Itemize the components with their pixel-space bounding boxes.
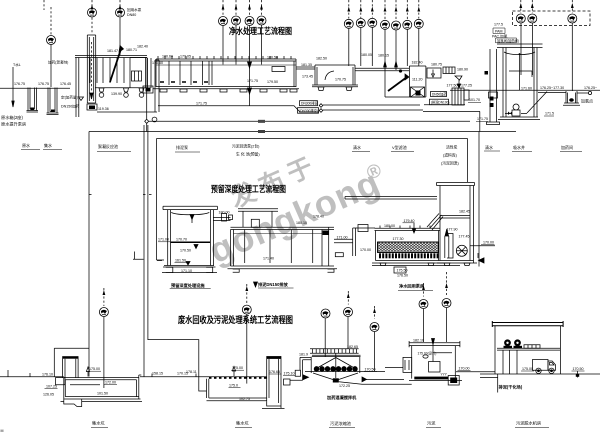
svg-text:DN80: DN80	[127, 13, 136, 17]
svg-text:净水处理工艺流程图: 净水处理工艺流程图	[229, 26, 292, 36]
svg-text:加药间: 加药间	[561, 144, 573, 150]
svg-text:176.60: 176.60	[152, 61, 163, 65]
svg-text:PAM: PAM	[495, 30, 503, 34]
svg-text:101.70: 101.70	[469, 98, 480, 102]
svg-text:176.50: 176.50	[397, 274, 408, 278]
svg-text:预留深度处理设施: 预留深度处理设施	[171, 282, 205, 289]
svg-text:M: M	[1, 429, 4, 433]
svg-text:181.35: 181.35	[301, 63, 312, 67]
svg-text:171.75: 171.75	[196, 102, 207, 106]
svg-text:182.40: 182.40	[137, 45, 148, 49]
svg-text:175.10: 175.10	[284, 372, 295, 376]
svg-text:181.9: 181.9	[299, 353, 308, 357]
svg-text:175.00: 175.00	[89, 367, 100, 371]
svg-text:179.50: 179.50	[267, 80, 278, 84]
svg-text:170.00: 170.00	[459, 367, 470, 371]
svg-text:175.0: 175.0	[229, 384, 238, 388]
svg-text:171.60: 171.60	[521, 87, 532, 91]
svg-text:170.75: 170.75	[335, 78, 346, 82]
svg-text:171.00: 171.00	[158, 238, 169, 242]
svg-text:176.25~: 176.25~	[584, 86, 597, 90]
svg-text:182.65: 182.65	[347, 345, 358, 349]
svg-text:集水坑: 集水坑	[236, 420, 249, 427]
svg-text:158.15: 158.15	[152, 372, 163, 376]
svg-text:171.5: 171.5	[545, 112, 554, 116]
svg-text:175.00: 175.00	[232, 366, 243, 370]
svg-text:102.75: 102.75	[239, 397, 250, 401]
svg-text:(DN300排空): (DN300排空)	[299, 108, 318, 113]
svg-text:170.50: 170.50	[365, 368, 376, 372]
svg-text:原水箱(2座): 原水箱(2座)	[1, 114, 23, 121]
svg-text:170.70: 170.70	[176, 238, 187, 242]
svg-text:176.75: 176.75	[14, 82, 25, 86]
svg-text:171.00: 171.00	[337, 236, 348, 240]
svg-text:回用水泵: 回用水泵	[127, 7, 142, 12]
svg-text:176.45: 176.45	[60, 82, 71, 86]
svg-text:177.5: 177.5	[494, 23, 503, 27]
svg-text:清水: 清水	[485, 144, 493, 150]
svg-text:171.40: 171.40	[263, 257, 274, 261]
svg-text:177.25: 177.25	[461, 84, 472, 88]
svg-text:176.10: 176.10	[42, 373, 53, 377]
svg-text:排泥(干化场): 排泥(干化场)	[499, 384, 523, 391]
svg-text:污泥脱水机房: 污泥脱水机房	[516, 420, 541, 427]
svg-text:172.00: 172.00	[105, 381, 116, 385]
svg-text:101.50: 101.50	[97, 392, 108, 396]
svg-text:171.75: 171.75	[247, 79, 258, 83]
svg-text:污泥浓缩池: 污泥浓缩池	[330, 420, 352, 427]
svg-text:排泥DN150排放: 排泥DN150排放	[258, 281, 289, 288]
svg-text:176.65: 176.65	[269, 370, 280, 374]
svg-text:YYY: YYY	[441, 373, 448, 377]
svg-text:180.90: 180.90	[457, 68, 468, 72]
svg-text:180.60: 180.60	[162, 55, 173, 59]
svg-text:139.90: 139.90	[111, 92, 122, 96]
svg-text:179.05: 179.05	[180, 55, 191, 59]
svg-text:171.75: 171.75	[477, 117, 488, 121]
svg-text:180.00: 180.00	[384, 224, 395, 228]
svg-text:171.10: 171.10	[181, 269, 192, 273]
svg-text:175.50: 175.50	[397, 269, 408, 273]
svg-text:177.90: 177.90	[447, 228, 458, 232]
svg-text:DN300排泥: DN300排泥	[301, 101, 319, 106]
svg-text:DN50加药: DN50加药	[432, 92, 447, 97]
svg-text:DN150加药: DN150加药	[61, 104, 80, 109]
svg-text:加药(混凝剂): 加药(混凝剂)	[48, 60, 68, 65]
svg-text:污泥: 污泥	[427, 420, 435, 427]
svg-text:181.47: 181.47	[107, 49, 118, 53]
svg-text:絮凝反应池: 絮凝反应池	[98, 143, 118, 149]
svg-text:178.40: 178.40	[313, 215, 324, 219]
svg-text:排泥泵: 排泥泵	[176, 144, 188, 150]
svg-text:182.45: 182.45	[459, 210, 470, 214]
svg-text:180.50: 180.50	[267, 56, 278, 60]
svg-text:180.71: 180.71	[126, 48, 137, 52]
svg-text:集水: 集水	[44, 142, 52, 148]
svg-text:107.25: 107.25	[46, 385, 57, 389]
svg-text:180.10: 180.10	[296, 221, 307, 225]
svg-text:活性炭: 活性炭	[446, 145, 458, 150]
svg-text:T水L: T水L	[13, 62, 21, 67]
svg-text:170.00: 170.00	[483, 241, 494, 245]
svg-text:177.45: 177.45	[459, 235, 470, 239]
svg-text:170.50: 170.50	[573, 367, 584, 371]
svg-text:126.05: 126.05	[43, 393, 54, 397]
svg-text:182.50: 182.50	[316, 57, 327, 61]
svg-text:182.40: 182.40	[412, 61, 423, 65]
svg-text:(滤料库): (滤料库)	[443, 153, 458, 158]
svg-text:(污泥回流): (污泥回流)	[441, 161, 459, 166]
svg-text:净水回用泵房: 净水回用泵房	[399, 283, 424, 290]
svg-text:原水提升泵房: 原水提升泵房	[1, 121, 26, 128]
svg-text:180.05: 180.05	[361, 53, 372, 57]
svg-text:定(加药量): 定(加药量)	[61, 95, 78, 100]
svg-text:集水坑: 集水坑	[92, 420, 105, 427]
svg-text:178.11: 178.11	[186, 370, 197, 374]
svg-text:生 化 池(预留): 生 化 池(预留)	[236, 152, 260, 157]
svg-text:180.15: 180.15	[378, 54, 389, 58]
svg-text:175.00: 175.00	[522, 367, 533, 371]
svg-text:污泥回流泵(2台): 污泥回流泵(2台)	[232, 144, 260, 149]
svg-text:170.00: 170.00	[360, 248, 371, 252]
svg-text:180.75: 180.75	[431, 63, 442, 67]
svg-text:176.25~177.30: 176.25~177.30	[540, 86, 564, 90]
svg-text:吸水井: 吸水井	[513, 144, 525, 150]
svg-text:176.75: 176.75	[38, 82, 49, 86]
svg-text:179.40: 179.40	[404, 219, 415, 223]
svg-text:170.50: 170.50	[180, 249, 191, 253]
svg-text:182.10: 182.10	[413, 339, 424, 343]
svg-text:175.00(设计): 175.00(设计)	[418, 351, 437, 356]
svg-text:预留深度处理工艺流程图: 预留深度处理工艺流程图	[211, 184, 286, 194]
svg-text:清水: 清水	[353, 144, 361, 150]
svg-text:废水回收及污泥处理系统工艺流程图: 废水回收及污泥处理系统工艺流程图	[178, 314, 293, 325]
svg-text:161.50: 161.50	[175, 259, 186, 263]
svg-text:加氯点: 加氯点	[581, 98, 593, 104]
svg-text:177.30: 177.30	[393, 237, 404, 241]
svg-text:180.00: 180.00	[219, 211, 230, 215]
svg-text:173.45: 173.45	[302, 75, 313, 79]
svg-text:177.50: 177.50	[447, 84, 458, 88]
svg-text:111.20: 111.20	[412, 78, 422, 82]
svg-text:V型滤池: V型滤池	[392, 144, 407, 150]
svg-text:加药混凝搅拌机: 加药混凝搅拌机	[326, 394, 357, 401]
svg-text:172.25: 172.25	[339, 384, 350, 388]
svg-text:(排泥DN100): (排泥DN100)	[431, 100, 449, 105]
svg-text:原水: 原水	[22, 142, 30, 148]
svg-text:加氯间(加药间): 加氯间(加药间)	[497, 38, 519, 43]
svg-text:119.36: 119.36	[98, 107, 109, 111]
